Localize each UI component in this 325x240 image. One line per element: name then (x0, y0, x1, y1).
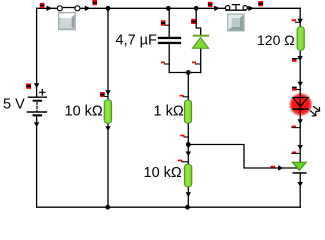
wire joining horizontal below cap and diode (169, 72, 201, 74)
wire capacitor branch bottom (168, 44, 170, 73)
terminal handle top rail near corner (40, 3, 45, 8)
terminal handle diode top (191, 19, 196, 24)
node junction top diode branch (194, 6, 199, 11)
switch S2 actuator cap (232, 4, 239, 6)
current arrow battery bottom (34, 122, 39, 127)
wire right column top (299, 8, 301, 27)
terminal handle above middle 10k (178, 160, 188, 162)
svg-text:4,7 µF: 4,7 µF (116, 32, 158, 48)
wire capacitor branch top (168, 8, 170, 37)
battery B1 plate long top (28, 96, 46, 98)
battery B1 plate short top (33, 100, 43, 102)
switch S2 bridge bar (closed) (226, 9, 246, 11)
node junction below cap-diode (186, 70, 191, 75)
switch S2 actuator stem (235, 5, 237, 10)
current arrow after left switch (85, 6, 91, 11)
node junction top col2 (106, 6, 111, 11)
terminal handle top of 120 ohm (292, 19, 301, 22)
wire diode branch bottom (200, 48, 202, 72)
thyristor cathode bar (293, 172, 307, 174)
diode D1 triangle (192, 38, 208, 49)
thyristor triangle (292, 162, 306, 170)
wire middle column lower (187, 187, 189, 207)
capacitor C1 bottom plate (158, 42, 181, 44)
wire right column mid2 (299, 108, 301, 162)
terminal handle above left 10k (100, 92, 108, 97)
push button S1 face (60, 18, 71, 29)
svg-text:10 kΩ: 10 kΩ (144, 165, 182, 181)
switch S2 (push-to-make) circle left (225, 6, 229, 10)
terminal handle capacitor top (161, 20, 169, 25)
push button S2 bevel light (228, 15, 243, 31)
wire top rail right segment (247, 7, 300, 9)
current arrow above left 10k resistor (105, 90, 110, 95)
current arrow below left 10k resistor (105, 126, 110, 131)
current arrow top rail after corner (47, 6, 53, 11)
terminal handle below 1k (180, 135, 188, 137)
terminal handle above thyristor (292, 152, 300, 154)
resistor R1 10k left body (104, 100, 111, 123)
wire middle column upper (187, 73, 189, 101)
battery B1 dashed middle (36, 103, 38, 111)
wire column 2 lower (107, 123, 109, 207)
terminal handle on gate wire (271, 166, 276, 168)
terminal handle capacitor bottom (161, 62, 169, 64)
current arrow before push switch (214, 6, 220, 11)
terminal handle battery top (26, 83, 31, 88)
LED glow (289, 93, 313, 117)
push button S2 face (232, 18, 240, 27)
current arrow below LED (298, 119, 303, 124)
wire right column mid1 (299, 50, 301, 106)
terminal handle below 120 ohm (292, 58, 300, 62)
switch S1 circle left (57, 6, 62, 11)
current arrow below middle 10k resistor (186, 192, 191, 197)
wire top rail left segment (37, 7, 58, 9)
LED emission arrow upper (314, 107, 320, 112)
battery plus sign (40, 90, 45, 95)
wire top rail middle segment (80, 7, 226, 9)
resistor R3 10k middle body (184, 164, 191, 186)
current arrow top right column (298, 19, 303, 24)
terminal handle after left switch (92, 0, 97, 5)
switch S2 circle right (243, 6, 247, 10)
wire bottom rail (37, 206, 301, 208)
battery B1 plate long bottom (27, 111, 46, 113)
wire left column (36, 8, 38, 97)
svg-text:120 Ω: 120 Ω (257, 32, 295, 48)
node junction bottom col2 (105, 205, 110, 210)
resistor R2 1k body (184, 100, 191, 123)
current arrow on gate wire (278, 165, 283, 170)
node junction bottom middle column (185, 205, 190, 210)
switch S1 closed bar (62, 7, 75, 9)
terminal handle diode bottom (192, 62, 201, 64)
terminal handle below LED (292, 126, 301, 128)
current arrow after push switch (248, 6, 254, 11)
push button actuator of S2 (228, 14, 244, 31)
push button S1 highlight top band (59, 13, 74, 18)
current arrow below divider tap (186, 152, 191, 157)
push button actuator of S1 (59, 13, 76, 30)
svg-text:5 V: 5 V (3, 96, 25, 112)
push button S1 right shade (72, 15, 75, 29)
current arrow above LED (298, 82, 303, 87)
resistor R4 120 ohm body (297, 27, 304, 50)
terminal handle before push switch (208, 2, 213, 7)
battery B1 plate short bottom (33, 114, 43, 116)
LED cathode bar (293, 108, 309, 110)
switch S1 circle right (75, 6, 80, 11)
wire middle column between resistors (187, 123, 189, 165)
current arrow below thyristor (298, 182, 303, 187)
wire gate from divider to thyristor (188, 145, 297, 169)
push button S1 bottom shade (59, 27, 74, 30)
svg-text:10 kΩ: 10 kΩ (65, 104, 103, 120)
push button S2 bevel dark (228, 15, 243, 31)
svg-text:1 kΩ: 1 kΩ (154, 104, 184, 120)
current arrow into battery top (34, 83, 39, 88)
current arrow above thyristor (298, 145, 303, 150)
wire column 2 upper (107, 8, 109, 100)
terminal handle after push switch (258, 1, 263, 6)
LED emission arrow lower (311, 111, 316, 116)
terminal handle above LED (292, 87, 300, 91)
capacitor C1 top plate (158, 37, 181, 39)
node junction top capacitor branch (166, 6, 171, 11)
diode D1 cathode bar (193, 35, 209, 37)
wire right column bottom (299, 173, 301, 207)
node junction divider tap (186, 142, 191, 147)
current arrow below 120 ohm (298, 56, 303, 61)
wire diode branch top (196, 8, 201, 35)
wire left column lower (36, 117, 38, 208)
terminal handle above 1k (180, 95, 189, 97)
LED triangle outline (293, 98, 309, 107)
